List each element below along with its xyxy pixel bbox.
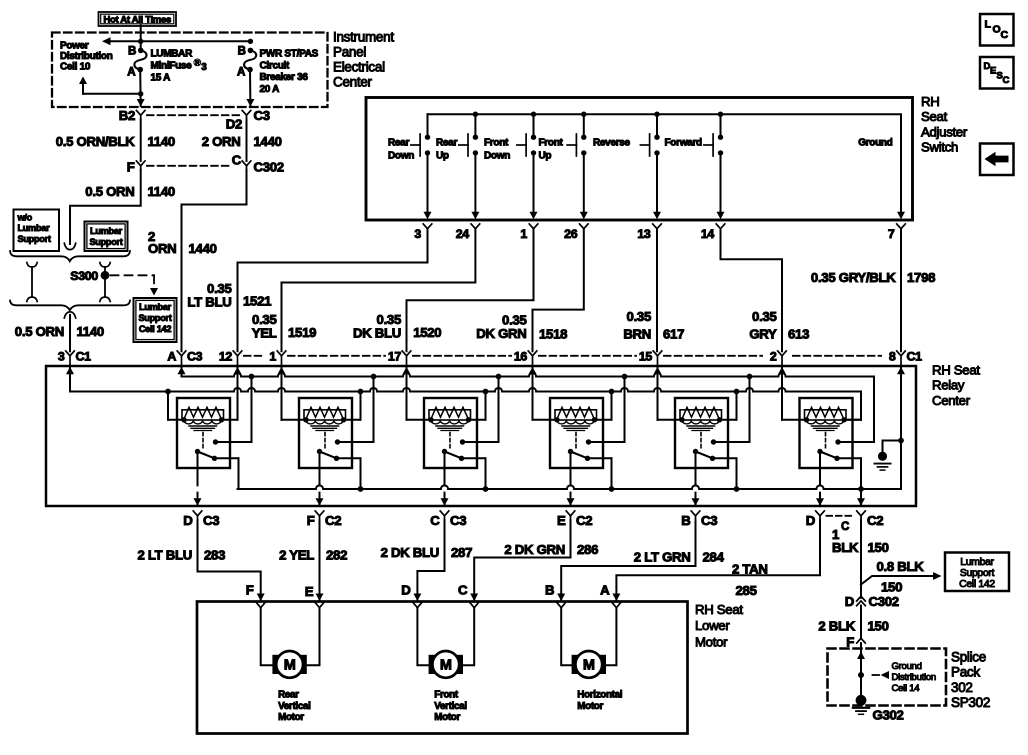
- svg-text:613: 613: [788, 326, 809, 341]
- junction bus NC: [483, 486, 489, 492]
- svg-text:Distribution: Distribution: [60, 51, 113, 62]
- junction bus A: [496, 374, 502, 380]
- svg-text:PWR ST/PAS: PWR ST/PAS: [260, 49, 319, 60]
- no-connection stub w/o lumbar: [27, 263, 37, 268]
- splice junction SP302: [858, 672, 864, 678]
- svg-text:0.35: 0.35: [627, 309, 651, 324]
- svg-text:Vertical: Vertical: [278, 701, 311, 712]
- junction bus B: [734, 389, 740, 395]
- svg-text:Splice: Splice: [951, 650, 986, 665]
- svg-text:617: 617: [663, 326, 684, 341]
- motor M Horizontal Motor: [572, 655, 606, 674]
- wire branch 0.8 BLK 150 to Lumbar Support Cell 142: [861, 576, 938, 585]
- junction bus NC: [358, 486, 364, 492]
- svg-text:Center: Center: [932, 393, 971, 408]
- svg-text:0.8 BLK: 0.8 BLK: [877, 559, 925, 574]
- junction: [654, 112, 659, 117]
- junction bus A: [249, 374, 255, 380]
- relay center connector pin 17: [402, 351, 411, 356]
- wire relay 1 common output: [197, 452, 199, 507]
- svg-text:RH Seat: RH Seat: [932, 363, 980, 378]
- svg-text:Up: Up: [539, 151, 552, 162]
- svg-text:Cell 142: Cell 142: [139, 324, 172, 334]
- wire relay 5 control: [658, 419, 683, 421]
- switch pin 14: [716, 224, 725, 229]
- svg-text:F: F: [307, 513, 315, 528]
- svg-text:C3: C3: [203, 513, 219, 528]
- component box: RH Seat Lower Motor: [197, 602, 688, 734]
- wire relay 2 control: [282, 419, 307, 421]
- wire relay 5 NO contact to bus A: [714, 441, 750, 443]
- svg-text:284: 284: [703, 550, 725, 565]
- connector C3 dashed line: [147, 114, 240, 116]
- connector C302 dashed line: [147, 165, 232, 167]
- svg-text:1140: 1140: [148, 134, 175, 149]
- svg-text:Switch: Switch: [921, 140, 958, 155]
- terminal hook: [64, 312, 75, 318]
- arrow into pin A: [178, 367, 186, 375]
- svg-text:1520: 1520: [413, 325, 441, 340]
- svg-text:Hot At All Times: Hot At All Times: [103, 15, 171, 26]
- svg-text:302: 302: [951, 680, 973, 695]
- splice pack pin F: [857, 638, 866, 643]
- svg-text:D: D: [806, 513, 815, 528]
- svg-text:Center: Center: [333, 75, 373, 90]
- svg-text:0.5 ORN: 0.5 ORN: [15, 324, 64, 339]
- svg-text:Support: Support: [18, 234, 51, 244]
- svg-text:C2: C2: [867, 513, 883, 528]
- svg-text:2: 2: [770, 349, 777, 363]
- svg-text:20 A: 20 A: [260, 84, 280, 95]
- junction bus B: [483, 389, 489, 395]
- wire: branch to Power Distribution cell with up arrow: [83, 93, 141, 95]
- svg-text:BLK: BLK: [832, 540, 859, 555]
- bus A power 2 ORN: [182, 373, 875, 377]
- relay center bottom pin C C2: [857, 511, 866, 516]
- svg-text:Relay: Relay: [932, 378, 965, 393]
- wire 0.35 DK GRN 1518: [533, 229, 584, 352]
- svg-text:C1: C1: [76, 349, 92, 363]
- svg-text:DK GRN: DK GRN: [476, 326, 526, 341]
- svg-text:0.5 ORN: 0.5 ORN: [85, 184, 134, 199]
- relay center connector pin 16: [528, 351, 537, 356]
- svg-text:1140: 1140: [77, 324, 104, 339]
- svg-text:Pack: Pack: [951, 665, 980, 680]
- svg-text:1: 1: [269, 349, 276, 363]
- svg-text:15: 15: [639, 349, 653, 363]
- wire 2 LT BLU 283: [198, 520, 261, 601]
- relay K2 rear up: [299, 398, 352, 468]
- circuit breaker: PWR ST/PAS Circuit Breaker 36 20 A: [248, 48, 254, 54]
- junction: [138, 91, 143, 96]
- svg-text:1440: 1440: [189, 241, 217, 256]
- svg-text:MiniFuse: MiniFuse: [151, 60, 193, 71]
- relay center connector pin 8 C1: [897, 351, 906, 356]
- svg-text:D: D: [183, 513, 192, 528]
- svg-text:Ground: Ground: [892, 661, 922, 672]
- relay K3 front down: [424, 398, 477, 468]
- svg-text:C3: C3: [187, 349, 203, 363]
- relay center connector pin 1: [277, 351, 286, 356]
- svg-text:Power: Power: [60, 41, 89, 52]
- svg-text:C: C: [458, 583, 468, 598]
- connector C3 pin D2: [242, 110, 251, 115]
- svg-text:A: A: [127, 66, 135, 78]
- svg-text:S300: S300: [70, 269, 98, 283]
- wire 0.35 DK BLU 1520: [407, 229, 534, 352]
- svg-text:2 LT BLU: 2 LT BLU: [138, 548, 193, 563]
- junction bus B: [165, 389, 171, 395]
- svg-text:Horizontal: Horizontal: [577, 690, 622, 701]
- wire relay 2 common output: [319, 452, 321, 507]
- svg-text:C302: C302: [869, 594, 899, 609]
- switch actuator Forward: [712, 134, 714, 156]
- wire relay 4 common output: [570, 452, 572, 507]
- svg-text:A: A: [237, 66, 245, 78]
- svg-text:Seat: Seat: [921, 109, 948, 124]
- wire relay 4 control: [533, 419, 558, 421]
- option box: Lumbar Support: [85, 222, 128, 252]
- svg-text:24: 24: [456, 227, 470, 241]
- svg-text:Lumbar: Lumbar: [90, 226, 123, 236]
- svg-text:3: 3: [58, 349, 65, 363]
- motor input pins Front: [413, 603, 421, 608]
- svg-text:Electrical: Electrical: [333, 60, 385, 75]
- svg-text:ORN: ORN: [148, 241, 176, 256]
- label box: Lumbar Support Cell 142: [945, 553, 1009, 592]
- junction: [718, 112, 723, 117]
- relay K4 front up: [550, 398, 603, 468]
- button LOC: [980, 14, 1014, 46]
- svg-text:3: 3: [201, 62, 207, 73]
- wire relay 1 coil common: [168, 419, 184, 421]
- relay center bottom pin B C3: [691, 511, 700, 516]
- svg-text:RH Seat: RH Seat: [695, 602, 743, 617]
- wire 0.35 GRY 613: [721, 229, 783, 352]
- wire relay 6 common output: [819, 452, 821, 507]
- relay center bottom pin D C3: [193, 511, 202, 516]
- relay center connector pin 3 C1: [66, 351, 75, 356]
- arrow: fuse wire exits box: [137, 99, 145, 107]
- svg-text:Motor: Motor: [434, 712, 460, 723]
- junction: [531, 112, 536, 117]
- relay center connector pin 15: [653, 351, 662, 356]
- wire 2 YEL 282: [319, 520, 321, 601]
- arrow into pin 3: [66, 367, 74, 375]
- svg-text:Distribution: Distribution: [892, 672, 936, 683]
- brace upper: [10, 251, 130, 261]
- wire 0.5 ORN 1140 to relay center pin 3: [69, 315, 71, 352]
- relay center connector dashed line: [244, 355, 263, 357]
- junction: [581, 112, 586, 117]
- wire to Horizontal motor left terminal: [561, 608, 571, 666]
- wire: feed bus with arrow to Power Distribution: [109, 40, 250, 42]
- svg-text:Rear: Rear: [278, 690, 299, 701]
- svg-text:Motor: Motor: [278, 712, 304, 723]
- junction bus A: [622, 374, 628, 380]
- svg-text:2 ORN: 2 ORN: [202, 134, 241, 149]
- relay center bottom pin D: [816, 511, 825, 516]
- svg-text:B2: B2: [119, 108, 135, 123]
- motor input pins Rear: [257, 603, 265, 608]
- wire relay 2 coil common: [344, 419, 361, 421]
- wire pin C ground drop: [860, 489, 862, 506]
- svg-text:E: E: [305, 584, 314, 599]
- svg-text:150: 150: [868, 619, 889, 634]
- connector C302 pin F: [136, 161, 145, 166]
- switch pin 7: [897, 224, 906, 229]
- reference arrow Ground Distribution Cell 14: [873, 674, 880, 676]
- svg-text:1440: 1440: [254, 134, 282, 149]
- svg-text:C1: C1: [907, 349, 923, 363]
- relay K1 rear down: [177, 398, 230, 468]
- svg-text:8: 8: [889, 349, 896, 363]
- svg-text:LT BLU: LT BLU: [187, 294, 231, 309]
- switch contact set: Front Down: [533, 114, 535, 134]
- svg-text:Support: Support: [89, 237, 122, 247]
- svg-text:C: C: [841, 521, 849, 533]
- svg-text:150: 150: [868, 540, 889, 555]
- switch contact set: Rear Up: [474, 114, 476, 134]
- relay center connector pin A C3: [177, 351, 186, 356]
- wire relay 1 control: [222, 419, 238, 421]
- wire relay 6 NO contact to bus A: [838, 441, 874, 443]
- svg-text:Down: Down: [388, 151, 414, 162]
- svg-text:Lumbar: Lumbar: [960, 557, 994, 568]
- wire to Horizontal motor right terminal: [606, 608, 616, 666]
- wire 0.35 BRN 617: [656, 229, 658, 352]
- brace lower: [10, 301, 130, 311]
- svg-text:B: B: [128, 45, 136, 57]
- wire relay 6 coil common: [844, 419, 861, 421]
- wire 2 DK BLU 287: [417, 520, 444, 601]
- svg-text:Up: Up: [436, 151, 449, 162]
- wire relay 6 control: [782, 419, 807, 421]
- switch actuator Reverse: [649, 134, 651, 156]
- junction: [138, 39, 143, 44]
- svg-text:Forward: Forward: [665, 138, 703, 149]
- connector C3 pin B2: [136, 110, 145, 115]
- svg-text:E: E: [990, 66, 996, 77]
- svg-text:A: A: [167, 349, 176, 363]
- svg-text:7: 7: [888, 227, 895, 241]
- bus B coil feed 0.5 ORN: [70, 388, 861, 392]
- svg-text:Cell 142: Cell 142: [959, 579, 995, 590]
- svg-text:C: C: [1001, 29, 1009, 41]
- wire relay 4 coil common: [595, 419, 612, 421]
- wire: breaker output: [249, 70, 251, 106]
- switch contact set: Front Up: [583, 114, 585, 134]
- svg-text:D2: D2: [226, 117, 242, 132]
- junction for internal ground: [898, 438, 904, 444]
- svg-text:Panel: Panel: [333, 45, 366, 60]
- wire: fuse output: [139, 70, 142, 106]
- ground G302: [856, 695, 867, 706]
- svg-text:Support: Support: [138, 313, 171, 323]
- svg-text:Motor: Motor: [577, 701, 603, 712]
- svg-text:L: L: [985, 19, 992, 31]
- relay K5 reverse: [675, 398, 728, 468]
- motor M Rear Vertical Motor: [272, 655, 306, 674]
- svg-text:G302: G302: [873, 708, 904, 723]
- svg-text:286: 286: [577, 542, 598, 557]
- svg-text:2 TAN: 2 TAN: [732, 561, 768, 576]
- svg-text:BRN: BRN: [623, 326, 651, 341]
- arrow into splice pack: [857, 652, 865, 660]
- junction bus NC: [858, 486, 864, 492]
- junction bus B: [609, 389, 615, 395]
- junction bus NC: [734, 486, 740, 492]
- svg-text:17: 17: [388, 349, 402, 363]
- svg-text:B: B: [681, 513, 690, 528]
- wire 0.5 ORN/BLK 1140: [140, 119, 142, 161]
- svg-text:C2: C2: [576, 513, 592, 528]
- svg-text:Adjuster: Adjuster: [921, 124, 968, 139]
- svg-text:LUMBAR: LUMBAR: [151, 49, 194, 60]
- wire: hot feed from Hot At All Times box: [140, 26, 142, 51]
- svg-text:285: 285: [736, 583, 757, 598]
- svg-text:Front: Front: [434, 690, 459, 701]
- motor M Front Vertical Motor: [429, 655, 463, 674]
- svg-text:26: 26: [564, 227, 578, 241]
- wire relay 4 NO contact to bus A: [589, 441, 625, 443]
- svg-text:M: M: [440, 658, 452, 674]
- wire relay 5 NC contact to bus: [713, 457, 737, 459]
- connector C2 dashed line: [827, 515, 855, 517]
- connector C302 pin C: [242, 161, 251, 166]
- relay center bottom pin C C3: [440, 511, 449, 516]
- switch internal bus: [428, 114, 902, 213]
- junction bus NC: [609, 486, 615, 492]
- wire relay 2 NO contact to bus A: [338, 441, 374, 443]
- switch contact set: Reverse: [656, 114, 658, 134]
- svg-text:D: D: [845, 594, 854, 609]
- svg-text:Instrument: Instrument: [333, 30, 394, 45]
- svg-text:C302: C302: [254, 159, 284, 174]
- label box: Lumbar Support Cell 142: [134, 298, 177, 342]
- wire relay 3 control: [407, 419, 432, 421]
- wire relay 3 coil common: [469, 419, 486, 421]
- svg-text:150: 150: [881, 580, 902, 595]
- switch actuator Rear Up: [467, 134, 469, 156]
- svg-text:C: C: [1003, 75, 1010, 86]
- svg-text:Front: Front: [484, 138, 509, 149]
- wire 2 ORN 1440 upper: [246, 119, 248, 161]
- junction: [248, 39, 253, 44]
- dashed reference wire to Lumbar Support Cell 142: [111, 274, 155, 276]
- wire 2 ORN 1440 to relay center pin A: [182, 170, 247, 351]
- svg-text:Lumbar: Lumbar: [18, 223, 51, 233]
- svg-text:282: 282: [326, 548, 347, 563]
- svg-text:C3: C3: [450, 513, 466, 528]
- svg-text:0.5 ORN/BLK: 0.5 ORN/BLK: [56, 134, 136, 149]
- svg-text:Circuit: Circuit: [260, 60, 291, 71]
- relay center connector pin 2: [778, 351, 787, 356]
- svg-text:2 LT GRN: 2 LT GRN: [634, 550, 691, 565]
- svg-text:12: 12: [219, 349, 233, 363]
- junction: [473, 112, 478, 117]
- svg-text:SP302: SP302: [951, 695, 990, 710]
- svg-text:Rear: Rear: [388, 138, 409, 149]
- svg-text:1518: 1518: [539, 326, 567, 341]
- wire relay 1 NO contact to bus A: [216, 441, 252, 443]
- svg-text:Rear: Rear: [436, 138, 457, 149]
- junction bus A: [371, 374, 377, 380]
- svg-text:1: 1: [520, 227, 527, 241]
- wire relay 5 coil common: [720, 419, 737, 421]
- svg-text:C3: C3: [701, 513, 717, 528]
- svg-text:Breaker 36: Breaker 36: [260, 72, 309, 83]
- svg-text:F: F: [246, 583, 254, 598]
- component box: RH Seat Relay Center: [46, 366, 916, 506]
- wire to Rear motor right terminal: [307, 608, 320, 666]
- svg-text:1521: 1521: [243, 293, 271, 308]
- svg-text:1140: 1140: [148, 184, 175, 199]
- svg-text:A: A: [600, 583, 610, 598]
- switch pin 3: [423, 224, 432, 229]
- svg-text:283: 283: [204, 548, 225, 563]
- svg-text:RH: RH: [921, 94, 939, 109]
- wire relay 5 common output: [695, 452, 697, 507]
- switch actuator Front Down: [525, 134, 527, 156]
- svg-text:C2: C2: [325, 513, 341, 528]
- svg-text:DK BLU: DK BLU: [353, 325, 401, 340]
- component box: RH Seat Adjuster Switch: [366, 98, 913, 221]
- wire relay 3 NC contact to bus: [462, 457, 486, 459]
- wire 2 DK GRN 286: [474, 520, 570, 601]
- wire 2 TAN 285: [616, 520, 820, 601]
- wire 0.35 LT BLU 1521: [238, 229, 428, 352]
- button DESC: [980, 57, 1014, 89]
- wire to Front motor left terminal: [417, 608, 428, 666]
- arrow into pin 8 / ground riser: [897, 367, 905, 375]
- svg-text:15 A: 15 A: [151, 72, 171, 83]
- svg-text:287: 287: [451, 545, 472, 560]
- switch pin 13: [653, 224, 662, 229]
- wire relay 4 NC contact to bus: [588, 457, 612, 459]
- svg-text:2 BLK: 2 BLK: [818, 619, 855, 634]
- svg-text:2 DK GRN: 2 DK GRN: [504, 542, 565, 557]
- svg-text:Down: Down: [484, 151, 510, 162]
- svg-text:Ground: Ground: [858, 138, 892, 149]
- svg-text:0.35: 0.35: [752, 309, 776, 324]
- button back arrow: [980, 144, 1014, 176]
- svg-text:C3: C3: [254, 108, 270, 123]
- wire relay 3 common output: [444, 452, 446, 507]
- svg-text:1519: 1519: [288, 325, 316, 340]
- svg-text:M: M: [583, 658, 595, 674]
- wire relay 2 NC contact to bus: [337, 457, 361, 459]
- svg-text:YEL: YEL: [252, 325, 277, 340]
- svg-text:Reverse: Reverse: [593, 138, 631, 149]
- svg-text:M: M: [284, 658, 296, 674]
- wire 2 BLK 150: [860, 606, 862, 639]
- svg-text:0.35 GRY/BLK: 0.35 GRY/BLK: [811, 270, 896, 285]
- svg-text:B: B: [238, 45, 246, 57]
- wire to Rear motor left terminal: [261, 608, 273, 666]
- switch pin 24: [471, 224, 480, 229]
- switch ground wire: [897, 212, 905, 220]
- svg-text:F: F: [127, 159, 135, 174]
- svg-text:B: B: [545, 583, 554, 598]
- wire into splice pack: [860, 643, 862, 700]
- svg-text:E: E: [557, 513, 566, 528]
- svg-text:C: C: [232, 153, 242, 168]
- connector C302 pin D: [857, 596, 866, 601]
- dashed box: Instrument Panel Electrical Center: [52, 33, 328, 108]
- wire 1 BLK 150: [860, 520, 862, 598]
- wire relay 1 NC contact to bus: [215, 457, 239, 459]
